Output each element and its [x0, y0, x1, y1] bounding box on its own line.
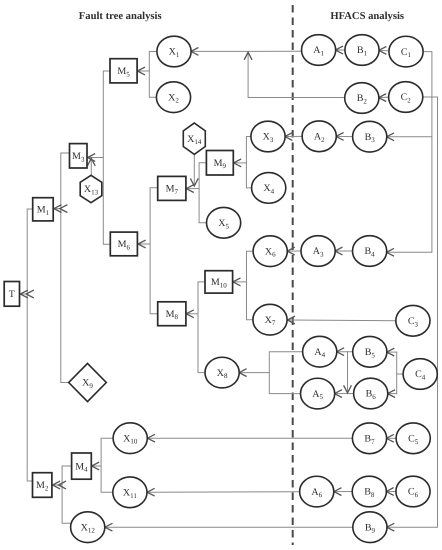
event circle C1: [389, 36, 423, 67]
wire C1 to B1 arrow: [379, 47, 390, 54]
event circle A5: [301, 378, 335, 409]
gate box T: [4, 282, 19, 307]
event circle C5: [396, 423, 430, 454]
gate box M3: [70, 144, 88, 168]
wire arrow into M2 (from M4 and X12): [53, 481, 66, 488]
wire C2 right rail to B9: [387, 97, 438, 531]
gate box M4: [72, 453, 92, 479]
wire C6 to B8 arrow: [386, 488, 396, 495]
wire B8 to A6 arrow: [334, 488, 353, 495]
wire arrow into M6: [138, 240, 150, 247]
wire arrow into X8: [239, 369, 269, 376]
wire arrow into M4: [92, 462, 102, 469]
event circle B6: [354, 378, 388, 409]
svg-text:Fault tree analysis: Fault tree analysis: [79, 11, 162, 22]
wire B6 to A5 arrow: [334, 390, 354, 397]
wire arrow into M9: [234, 159, 247, 166]
wire B4 to A3 arrow: [335, 247, 353, 254]
event circle B4: [353, 236, 387, 267]
event circle B2: [345, 83, 379, 114]
wire X3-X4 bracket: [246, 137, 252, 188]
wire B9 to X12 arrow: [105, 524, 353, 531]
wire arrow into M3: [88, 154, 104, 161]
wire C1 right rail to B4: [386, 52, 432, 256]
event circle A6: [300, 476, 334, 507]
wire C2 to B2 arrow: [379, 94, 389, 101]
gate box M10: [205, 271, 233, 293]
wire A2 to X3 arrow: [285, 133, 303, 140]
event circle B8: [352, 476, 386, 507]
wire B3 to A2 arrow: [336, 133, 353, 140]
event circle A1: [302, 35, 336, 66]
event circle B3: [353, 121, 387, 152]
gate box M8: [158, 302, 186, 326]
wire arrow into M5: [137, 67, 149, 74]
wire X13 up arrow: [88, 158, 95, 175]
svg-text:HFACS analysis: HFACS analysis: [330, 11, 404, 22]
wire A4-A5 bracket: [269, 352, 303, 394]
wire A6 to X11 arrow: [147, 489, 300, 496]
dashed divider line: [292, 5, 294, 545]
event circle B5: [353, 336, 387, 367]
wire M3-M1-X9 rail: [61, 153, 70, 383]
event circle X7: [253, 304, 287, 335]
event circle X10: [113, 423, 147, 454]
wire arrow into T (from M1 and M2): [20, 290, 33, 297]
event circle C3: [396, 305, 430, 336]
event circle X11: [113, 477, 147, 508]
event circle A2: [302, 121, 336, 152]
event circle X3: [251, 121, 285, 152]
gate box M5: [110, 59, 137, 83]
wire A1 to X1 arrow: [191, 48, 302, 55]
gate box M6: [110, 232, 137, 256]
event circle X5: [207, 207, 241, 238]
wire C5 to B7 arrow: [386, 435, 396, 442]
wire A3 to X6 arrow: [287, 248, 301, 255]
event circle C4: [403, 359, 437, 390]
event circle B9: [353, 512, 387, 543]
hexagon X14: [183, 123, 205, 154]
wire M4-X12 rail: [62, 466, 72, 523]
event circle X2: [156, 82, 190, 113]
event circle A3: [301, 236, 335, 267]
gate box M1: [33, 198, 54, 221]
wire C3 to X7 arrow: [287, 316, 396, 323]
wire B5 row to B6 row down arrow: [344, 352, 351, 393]
wire X6-X7 bracket: [247, 251, 254, 320]
event circle X8: [205, 357, 239, 388]
wire B5 to A4 arrow: [337, 348, 354, 355]
event circle X6: [253, 236, 287, 267]
event circle A4: [303, 336, 337, 367]
gate box M9: [206, 151, 233, 176]
wire arrow into M8: [186, 310, 198, 317]
wire M9-X5 bracket: [199, 163, 207, 223]
svg-text:T: T: [9, 289, 15, 300]
wire M10-X8 bracket: [198, 282, 205, 373]
wire arrow into M7: [186, 185, 199, 192]
gate box M2: [33, 473, 52, 498]
wire X10-X11 bracket: [101, 438, 113, 492]
wire M1-T-M2 rail: [27, 209, 33, 481]
wire arrow into M1 (from M3 and X9): [54, 205, 67, 212]
event circle X4: [252, 173, 286, 204]
wire C1 rail branch to B3: [387, 133, 432, 140]
diamond X9: [69, 363, 107, 401]
event circle C6: [396, 476, 430, 507]
event circle C2: [389, 82, 423, 113]
event circle X1: [157, 36, 191, 67]
gate box M7: [158, 176, 186, 200]
wire X1-X2 bracket: [149, 52, 157, 98]
wire B2 up-junction arrow: [245, 52, 346, 97]
wire X14 down arrow: [191, 154, 198, 186]
wire arrow into M10: [233, 278, 247, 285]
event circle B1: [345, 35, 379, 66]
event circle B7: [352, 423, 386, 454]
event circle X12: [71, 512, 105, 543]
wire B7 to X10 arrow: [147, 435, 352, 442]
wire C4 bracket to B5 and B6: [387, 349, 404, 398]
hexagon X13: [80, 175, 102, 202]
wire B1 to A1 arrow: [335, 46, 345, 53]
wire M7-M8 bracket: [150, 188, 158, 314]
wire M5-M6 rail: [103, 71, 110, 244]
